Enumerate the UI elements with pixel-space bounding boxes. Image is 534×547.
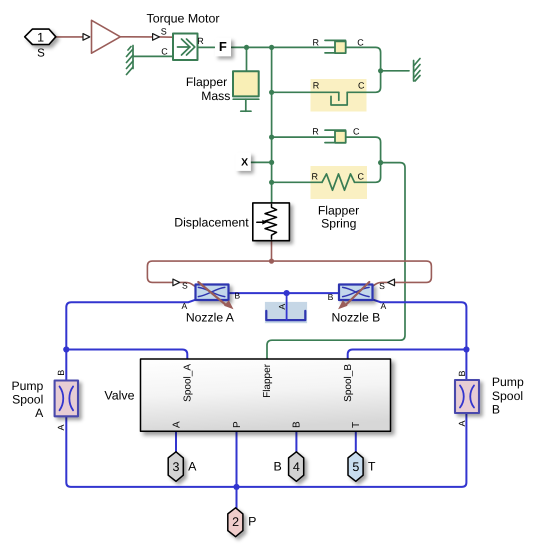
svg-text:Spool_A: Spool_A [183,364,194,402]
port 2 hexagon (P) [228,508,243,537]
pump spool A block [55,381,78,417]
flapper cup [265,293,307,323]
svg-text:B: B [292,421,303,428]
arrow (PS into gain, black open) [83,34,90,41]
arrow (PS into torque motor S, black open) [153,34,160,41]
wire: X tag to rail [251,161,272,163]
annotation highlight (hard stop) [311,79,367,112]
svg-text:Mass: Mass [201,89,230,103]
node (damper2 row) [269,135,274,140]
node (hard stop row) [269,90,274,95]
node (right rail to ground) [378,68,383,73]
node (mass branch) [244,45,249,50]
svg-text:X: X [241,157,248,169]
svg-text:A: A [35,406,44,420]
node (spring row) [269,180,274,185]
wire: port1 to gain [56,36,84,38]
svg-text:B: B [328,292,334,302]
node (X tag) [269,160,274,165]
port 3 hexagon (A) [168,452,183,482]
svg-text:A: A [171,421,182,428]
node (left rail to Spool_A) [63,346,69,352]
svg-text:S: S [182,281,188,291]
spring K1 (Flapper Spring) zigzag [322,174,355,190]
svg-text:A: A [457,420,467,426]
node (flapper takeoff) [378,160,383,165]
wire: gain to torque motor S [120,36,152,38]
damper D1 (top) [325,40,346,53]
svg-text:F: F [219,39,227,54]
svg-text:R: R [312,172,319,182]
port 1 hexagon (S) [25,29,56,44]
nozzle N1 (Nozzle A) [196,285,229,301]
wire: right rail branch to valve Spool_B [348,350,467,360]
svg-text:R: R [313,81,320,91]
wire: valve A to port 3 [175,431,177,452]
wire: nozzle A port A to left rail [66,302,188,380]
wire: S stub into nozzle B [369,282,388,288]
wire R: torque motor to F tag [198,46,215,48]
svg-text:B: B [273,459,281,473]
port 4 hexagon (B) [289,452,304,482]
node (sensor signal tee) [269,259,274,264]
svg-text:5: 5 [352,460,359,474]
svg-text:A: A [188,459,197,473]
svg-text:R: R [197,36,204,46]
svg-text:S: S [161,27,167,37]
ground (mechanical reference right) [414,59,420,82]
torque motor U1 [173,34,198,61]
wire: nozzle A B to nozzle B B [229,292,340,294]
ground (mechanical reference at torque motor C) [127,46,134,75]
arrow (PS into nozzle A S, black open) [173,279,180,286]
wire: F tag to damper 1 [231,46,336,48]
port 5 hexagon (T) [348,452,363,482]
svg-text:C: C [161,47,168,57]
svg-text:S: S [37,47,45,59]
gain amplifier A1 (triangle) [92,20,121,53]
arrow (variable orifice indicator, nozzle B) [338,282,369,309]
svg-text:Flapper: Flapper [318,204,359,218]
X tag [236,153,251,171]
node (bottom rail P junction) [233,484,239,490]
wire: mass branch vertical [246,47,248,71]
wire: spring R [272,181,322,183]
nozzle N2 (Nozzle B) [339,285,373,301]
svg-text:B: B [56,370,66,376]
wire: flapper plate [286,293,288,320]
svg-text:T: T [368,459,376,473]
svg-text:Valve: Valve [104,389,134,403]
pump spool B block [455,380,479,413]
wire: damper2 C down right rail to spring C [346,137,381,182]
wire: damper1 C to right rail, down to hard stop C [346,47,381,92]
svg-text:B: B [234,291,240,301]
svg-text:S: S [379,281,385,291]
svg-text:Flapper: Flapper [186,75,227,89]
wire: pump spool A to bottom rail and up to pump spool B [66,413,466,487]
svg-text:T: T [351,422,362,428]
svg-text:1: 1 [37,30,44,44]
valve block V1 [141,359,391,431]
wire: diagonal stub A (nozzle B) [373,300,381,303]
wire: right rail to ground [381,70,409,72]
svg-text:C: C [358,81,365,91]
svg-text:Spool_B: Spool_B [343,364,354,402]
svg-text:R: R [312,126,319,136]
node (right rail to Spool_B) [463,346,469,352]
svg-text:B: B [457,370,467,376]
svg-text:3: 3 [173,460,180,474]
wire: signal to nozzle B S [272,261,432,282]
svg-text:Nozzle B: Nozzle B [332,311,381,325]
svg-text:B: B [492,402,500,416]
wire: flapper takeoff to valve Flapper port [267,163,405,359]
svg-text:P: P [232,421,243,428]
wire: displacement sensor output down [271,241,273,261]
svg-text:A: A [182,301,188,311]
wire: diagonal stub A (nozzle A) [189,300,197,303]
wire: damper2 R [272,136,335,138]
F tag [215,38,231,57]
wire: valve P to port 2 [236,431,238,508]
wire: signal to nozzle A S [147,261,271,282]
svg-text:C: C [353,126,360,136]
wire: valve B to port 4 [295,431,297,452]
hard stop HS1 icon [331,92,347,105]
wire: valve T to port 5 [355,431,357,452]
svg-text:Spool: Spool [492,389,523,403]
svg-text:4: 4 [293,460,300,474]
node (flapper plate junction) [284,290,290,296]
svg-text:2: 2 [232,515,239,529]
arrow (PS into nozzle B S, black open, pointing left) [388,279,395,286]
wire: S stub into nozzle A [180,282,199,288]
node (rows branch) [269,45,274,50]
wire: hard stop R [272,91,339,93]
main vertical rail x=271.6 [271,47,273,203]
wire: left rail branch to valve Spool_A [66,350,187,360]
svg-text:C: C [357,37,364,47]
svg-text:Pump: Pump [492,375,524,389]
svg-text:C: C [357,172,364,182]
svg-text:R: R [312,37,319,47]
wire: nozzle B port A to right rail [381,302,467,380]
damper D2 icon [325,130,346,143]
wire C: ground to torque motor [133,55,173,57]
svg-text:Nozzle A: Nozzle A [186,311,235,325]
svg-text:Displacement: Displacement [174,215,249,229]
arrow (variable orifice indicator, nozzle A) [198,282,233,309]
svg-text:Pump: Pump [11,379,43,393]
svg-text:A: A [56,424,66,430]
svg-text:Spring: Spring [321,217,356,231]
svg-text:P: P [248,514,256,528]
annotation highlight (flapper spring) [311,166,368,199]
displacement sensor U2 [253,203,290,241]
svg-text:Torque Motor: Torque Motor [147,12,220,26]
svg-text:Flapper: Flapper [262,363,273,398]
mass M1 (Flapper Mass) [233,71,259,111]
svg-text:Spool: Spool [12,393,43,407]
svg-text:A: A [277,304,287,310]
svg-text:A: A [381,301,387,311]
